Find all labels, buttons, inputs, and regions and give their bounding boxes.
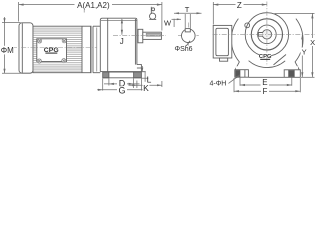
svg-text:J: J bbox=[120, 37, 124, 46]
svg-text:K: K bbox=[143, 83, 149, 93]
svg-text:ΦSh6: ΦSh6 bbox=[175, 46, 193, 53]
svg-text:F: F bbox=[262, 87, 267, 96]
svg-text:Y: Y bbox=[302, 48, 307, 57]
svg-text:ΦM: ΦM bbox=[1, 46, 14, 55]
svg-text:T: T bbox=[185, 5, 190, 14]
svg-text:G: G bbox=[118, 85, 125, 95]
svg-text:W: W bbox=[164, 18, 172, 27]
svg-text:X: X bbox=[310, 38, 315, 47]
svg-text:Z: Z bbox=[237, 1, 242, 10]
svg-text:E: E bbox=[262, 78, 267, 87]
svg-text:4-ΦH: 4-ΦH bbox=[210, 80, 227, 87]
svg-text:A(A1,A2): A(A1,A2) bbox=[77, 1, 110, 10]
